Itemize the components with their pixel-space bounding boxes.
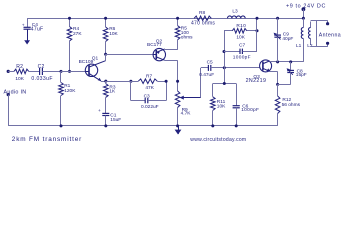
wire base-node up to R10/C7	[224, 52, 226, 68]
capacitor C3	[141, 93, 159, 110]
svg-text:R8: R8	[199, 10, 205, 16]
wire Q2 collector down	[177, 60, 179, 91]
svg-text:15pF: 15pF	[296, 72, 307, 78]
node emitter junction	[276, 83, 279, 86]
svg-text:0.47uF: 0.47uF	[199, 72, 214, 78]
junction dot bus C9	[276, 17, 279, 20]
capacitor C4	[22, 18, 44, 32]
node R7 right junction	[176, 80, 179, 83]
resistor R10	[224, 23, 257, 41]
capacitor C2	[31, 64, 53, 82]
svg-text:470 ohms: 470 ohms	[191, 21, 215, 27]
node collector C9 junction	[276, 60, 279, 63]
svg-text:27K: 27K	[73, 31, 82, 37]
svg-text:BC109: BC109	[79, 59, 94, 65]
wire C5 to Q3 base	[211, 67, 260, 69]
svg-text:+: +	[22, 23, 25, 28]
label website	[190, 137, 246, 143]
wire wiper up to C5	[201, 68, 209, 98]
junction dot R1 bottom	[60, 124, 63, 127]
node rail junction	[223, 82, 226, 85]
svg-text:2N2219: 2N2219	[246, 78, 267, 84]
junction dot R5 top	[176, 17, 179, 20]
junction dot R4 bottom	[68, 70, 71, 73]
ground arrow below C4	[24, 29, 30, 44]
capacitor C1	[98, 109, 121, 126]
node antenna terminal top	[326, 22, 329, 25]
wire R10 to top bus	[256, 18, 258, 31]
svg-text:+: +	[98, 109, 101, 114]
wire Q1-collector to Q2-base	[106, 54, 154, 56]
svg-text:R4: R4	[73, 26, 79, 32]
transistor Q3	[246, 60, 272, 84]
svg-text:0.033uF: 0.033uF	[31, 76, 53, 82]
svg-text:0.022uF: 0.022uF	[141, 104, 159, 110]
junction dot bus L1	[302, 17, 305, 20]
wire C7 bottom right	[243, 31, 257, 52]
svg-text:10K: 10K	[217, 104, 226, 110]
label Q1 emitter wire	[101, 81, 106, 83]
svg-text:C5: C5	[207, 60, 213, 66]
wire C7 bottom left	[224, 51, 240, 53]
wire input to R2	[8, 71, 14, 73]
svg-text:R2: R2	[16, 64, 23, 70]
node R1 top junction	[60, 70, 63, 73]
junction dot bus R10	[256, 17, 259, 20]
svg-text:15uF: 15uF	[110, 117, 121, 123]
junction dot R9 bottom	[176, 124, 179, 127]
wire input ground down	[8, 95, 10, 126]
resistor R2	[14, 64, 29, 82]
svg-text:C2: C2	[38, 64, 45, 70]
resistor R3	[104, 81, 117, 113]
svg-text:10K: 10K	[15, 76, 24, 82]
wire C2 to base node	[42, 71, 61, 73]
svg-text:+9 to 24V DC: +9 to 24V DC	[286, 3, 326, 9]
wire top supply bus	[27, 18, 303, 20]
svg-text:R7: R7	[146, 74, 152, 80]
svg-text:www.circuitstoday.com: www.circuitstoday.com	[190, 137, 246, 143]
svg-text:120K: 120K	[64, 88, 76, 94]
svg-text:56 ohms: 56 ohms	[282, 102, 301, 108]
wire antenna link	[311, 20, 328, 46]
svg-text:1K: 1K	[109, 89, 116, 95]
junction dot R6 top	[104, 17, 107, 20]
junction dot C1 bottom	[104, 124, 107, 127]
junction dot R11 bottom	[211, 124, 214, 127]
ground symbol	[175, 126, 182, 135]
node supply terminal	[302, 7, 306, 11]
wire base-node down to R11/C6	[224, 68, 226, 84]
capacitor C9 trimmer	[274, 18, 294, 62]
wire C3 right side	[148, 81, 167, 100]
wire R11 C6 top rail	[213, 83, 236, 85]
transistor Q2	[147, 38, 166, 60]
resistor R6	[103, 18, 118, 54]
capacitor C8 trimmer	[287, 62, 307, 85]
inductor L1	[296, 18, 304, 62]
resistor R9 preset	[175, 91, 191, 126]
node antenna terminal bottom	[326, 42, 329, 45]
svg-text:ohms: ohms	[181, 34, 193, 40]
svg-text:C3: C3	[144, 93, 150, 99]
resistor R1	[59, 71, 77, 126]
wire supply stub	[303, 9, 305, 18]
svg-text:C7: C7	[239, 43, 245, 49]
resistor R7	[131, 74, 166, 91]
wire R10 box left side	[224, 31, 226, 52]
wire emitter to C8 bottom	[278, 84, 291, 86]
svg-text:L3: L3	[232, 9, 238, 15]
node Q1 emitter junction	[104, 80, 107, 83]
capacitor C7	[233, 43, 251, 61]
junction dot C6 bottom	[235, 124, 238, 127]
label title	[12, 136, 82, 143]
svg-text:47uF: 47uF	[31, 26, 44, 32]
svg-text:Antenna: Antenna	[319, 32, 341, 38]
wire Q2 emitter to R5	[165, 48, 178, 51]
node collector C8 junction	[289, 60, 292, 63]
label supply voltage	[286, 3, 326, 9]
capacitor C5	[199, 60, 214, 79]
inductor L2	[307, 22, 313, 50]
wiper arrow of R9	[180, 96, 201, 100]
junction dot R7 right	[165, 80, 168, 83]
node Q1 collector junction	[104, 53, 107, 56]
node audio input signal terminal	[7, 70, 10, 73]
transistor Q1	[79, 54, 106, 81]
svg-text:10K: 10K	[236, 35, 245, 41]
svg-text:L1: L1	[296, 43, 302, 49]
capacitor C6	[233, 84, 260, 126]
wire Q2 collector right	[165, 60, 178, 62]
wire C3 left side	[131, 81, 146, 100]
wire base node to Q1	[61, 71, 89, 73]
node R7 left junction	[129, 80, 132, 83]
resistor R4	[67, 18, 82, 71]
wire R2 to C2	[29, 71, 40, 73]
svg-text:10K: 10K	[109, 31, 118, 37]
wire Q3 collector to tank	[270, 61, 304, 63]
svg-text:1000pF: 1000pF	[241, 107, 259, 113]
svg-text:40pF: 40pF	[282, 36, 293, 42]
svg-text:47K: 47K	[145, 85, 154, 91]
svg-text:4.7K: 4.7K	[181, 111, 192, 117]
resistor R11	[211, 84, 227, 126]
wire Q3 emitter	[270, 72, 278, 85]
label Audio IN	[4, 90, 27, 96]
wire emitter to R7	[106, 81, 131, 83]
node R10 C7 corner	[223, 50, 226, 53]
inductor L3	[228, 9, 246, 19]
junction dot R4 top	[68, 17, 71, 20]
wire bottom ground bus	[8, 125, 277, 127]
svg-text:BC177: BC177	[147, 42, 162, 48]
resistor R5	[175, 18, 193, 50]
svg-text:R10: R10	[236, 23, 246, 29]
node C5 base junction	[223, 66, 226, 69]
node audio input ground terminal	[7, 93, 10, 96]
resistor R8	[191, 10, 215, 26]
label Antenna	[319, 32, 341, 38]
node R10 right junction	[256, 29, 259, 32]
resistor R12	[275, 84, 300, 126]
svg-text:1000pF: 1000pF	[233, 55, 251, 61]
svg-text:2km FM transmitter: 2km FM transmitter	[12, 136, 82, 143]
